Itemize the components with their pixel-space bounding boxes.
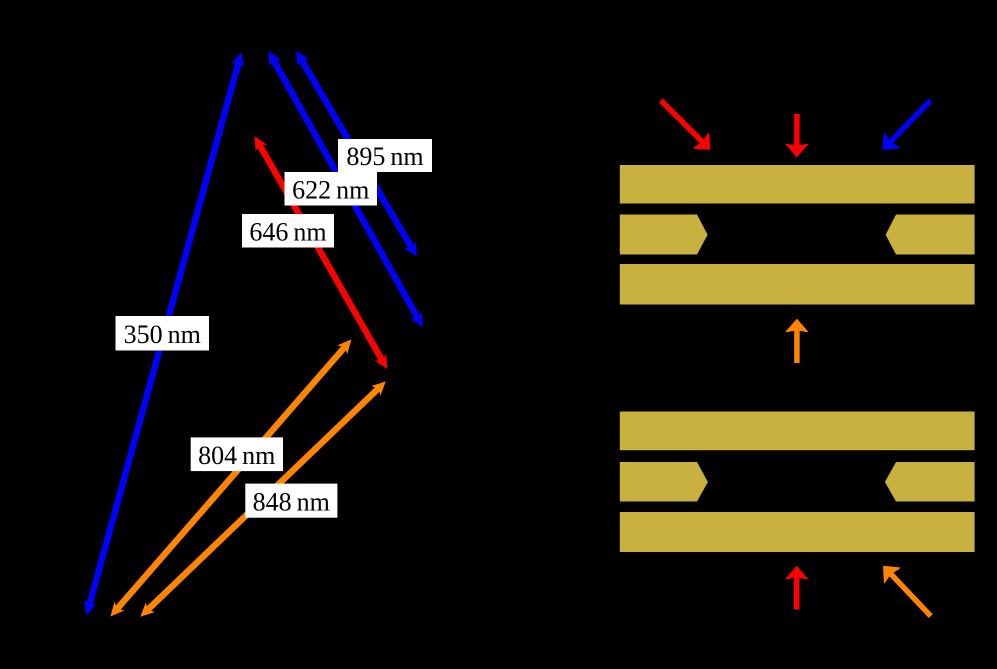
svg-text:646nm: 646nm (249, 218, 326, 247)
svg-text:622nm: 622nm (292, 176, 369, 205)
svg-text:804nm: 804nm (198, 441, 275, 470)
svg-text:895nm: 895nm (346, 142, 423, 171)
svg-text:350nm: 350nm (124, 320, 201, 349)
svg-text:848nm: 848nm (253, 487, 330, 516)
